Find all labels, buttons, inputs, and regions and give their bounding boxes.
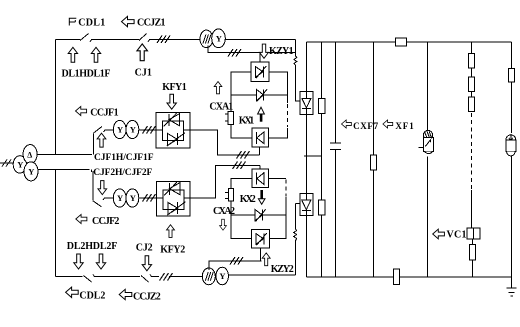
contact DL2 (switch on bottom bus) [84,275,141,283]
wire: stub below KX1c [259,147,261,155]
svg-text:Δ: Δ [27,150,32,159]
CT circles channel 1 [113,120,126,138]
wire: stub below KX2c [259,248,261,261]
arrow up KZY2 [262,253,270,266]
svg-text:Y: Y [117,193,123,203]
svg-text:CDL2: CDL2 [79,290,105,301]
svg-text:DL2HDL2F: DL2HDL2F [67,241,118,252]
diode box VD1 [300,91,313,114]
channel 1 riser with contact [94,127,114,155]
wire: KX1 right rail lower [268,128,287,138]
fuse on top bus [395,38,406,46]
discharge tube FV1 [418,130,433,153]
svg-text:XF1: XF1 [395,121,414,131]
wire: KX2 right rail top [268,178,286,180]
wire: stub into box KX2a [259,165,261,169]
slash marks on bottom bus [160,273,173,281]
svg-text:KFY2: KFY2 [160,244,185,255]
resistor R3 [370,155,376,170]
flex joint KZY1 [294,56,297,65]
svg-text:Y: Y [130,125,136,135]
wire: bottom bus right of transformer [228,274,295,276]
svg-text:Y: Y [130,193,136,203]
wire KZY1 feed from T1 [208,45,296,52]
arrow up DL1H [68,47,77,62]
arrow down CJ2 [142,256,151,271]
resistor R8 [508,69,514,83]
slash marks on KZY2 feed [230,257,243,265]
wire: stub into box KX1a [259,53,261,63]
slash marks on KFY2 output [233,162,246,170]
resistor R6 [468,97,474,111]
resistor R5 [468,77,474,91]
arrow up CXA1 [214,82,222,94]
thyristor KX1b (middle) [231,94,257,96]
arrow down KFY1 [167,94,176,109]
arrow left CDL2 [66,287,79,297]
svg-text:CJ2: CJ2 [136,243,153,254]
resistor CXA1 [228,112,233,125]
resistor R2 [319,200,325,215]
contact CJ2 (switch on bottom bus) [141,275,159,283]
excitation transformer T1 (top) [200,30,213,48]
flex joint KZY2 [294,229,297,241]
slash marks before KFY1 [143,126,156,134]
arrow left CCJZ1 [122,16,135,26]
wire: KX1 right rail upper [269,72,288,103]
svg-text:CJ1: CJ1 [135,68,152,79]
arrow left CCJF2 [76,214,87,223]
thyristor box KX1a [251,62,269,81]
diode box KX1c (bottom) [252,128,268,147]
wire: dashed measuring link [471,113,473,190]
wire: KX1 left rail [231,72,251,112]
wire: KFY2 output right [190,165,260,198]
wire: bottom bus segment 1 [56,276,83,278]
slash marks on KZY1 feed [228,49,241,57]
diode box VD2 [300,193,313,215]
CT circles channel 2 [113,189,126,207]
wire: right rail of left block (top segment with flex joint) [295,40,297,57]
svg-text:Y: Y [117,125,123,135]
fuse on bottom bus [393,269,399,285]
wire: KX1 right rail dashed [286,104,288,127]
svg-text:DL1HDL1F: DL1HDL1F [62,69,111,80]
svg-text:KX2: KX2 [240,194,256,205]
branch 5: discharge tube x=427.6 [427,42,429,131]
branch 7: right edge x=511.5 [511,42,513,69]
svg-text:Y: Y [17,160,23,170]
arrow left CXF7 [342,120,352,128]
arrow left VC1 [433,229,445,239]
svg-text:VC1: VC1 [447,230,467,241]
svg-text:CCJF2: CCJF2 [92,216,119,227]
branch 1: crowbar diodes x=306.4 [305,42,307,92]
excitation transformer T2 (bottom) [202,268,215,285]
wire: KX1 left rail lower [231,125,252,139]
svg-text:Y: Y [28,167,34,177]
wire: field bottom bus [306,276,511,278]
branch 6: sensing chain x=471.5 [471,42,473,54]
svg-text:CJF1H/CJF1F: CJF1H/CJF1F [94,153,154,163]
slash marks before KFY2 [143,194,156,202]
resistor R7 [469,245,475,261]
svg-text:CCJZ2: CCJZ2 [133,292,161,303]
arrester F1 [506,134,516,156]
thyristor box KX2c (bottom) [251,230,269,249]
arrow left CCJF1 [76,106,87,115]
slash marks on generator lead [2,160,11,167]
wire: right rail of left block (bottom segment with flex joint) [295,204,299,229]
thyristor bridge KFY2 [157,182,191,216]
svg-text:Y: Y [216,34,222,44]
svg-text:CXA2: CXA2 [213,206,235,217]
arrow down KX2 [258,190,265,204]
wire: bottom bus to transformer [169,276,203,278]
wire KZY2 feed from T2 [209,261,262,270]
wire: KX2 left rail [231,179,252,189]
thyristor KX2b (middle) [231,214,255,216]
wire: CT to KFY1 [138,129,156,131]
arrow down DL2F [96,254,105,269]
wire: bus CJF2H/CJF2F [38,169,90,171]
arrow up channel1 [97,133,106,147]
arrow down DL2H [74,254,83,269]
branch 4: resistor x=373.5 [373,42,375,155]
svg-text:Y: Y [219,271,225,281]
contact CJ1 (switch on top bus) [139,34,201,43]
wire: top bus segment 1 [56,39,81,41]
resistor CXA2 [228,189,233,201]
slash marks on top bus [157,36,170,44]
wire: KX2 right rail lower [269,197,286,239]
svg-text:CXA1: CXA1 [209,102,233,113]
capacitor C1 [330,143,341,149]
arrow flag CDL1 [69,18,76,25]
wire: KFY1 output right [190,130,260,155]
wire: bus CJF1H/CJF1F [37,153,92,155]
connector box VC1 [467,228,480,239]
arrow up DL1F [91,47,100,62]
arrow up CJ1 [137,44,148,61]
diode box KX2a (top) [252,169,268,187]
branch 2: resistor chain x=321.7 [321,42,323,99]
wire: top bus right of transformer [225,39,296,41]
wire: field top bus [306,41,511,43]
svg-text:CXF7: CXF7 [353,121,379,131]
svg-text:CCJF1: CCJF1 [90,108,118,119]
svg-text:KFY1: KFY1 [162,82,186,93]
arrow up KFY2 [167,225,175,238]
svg-text:KZY1: KZY1 [269,46,294,57]
wire: tie between branch1 and branch2 [304,155,322,157]
svg-text:CCJZ1: CCJZ1 [137,18,166,29]
svg-text:KZY2: KZY2 [271,264,294,275]
svg-text:CJF2H/CJF2F: CJF2H/CJF2F [93,168,152,178]
svg-text:KX1: KX1 [239,116,255,127]
branch 3: capacitor x=335.6 [335,42,337,143]
svg-text:CDL1: CDL1 [78,18,105,29]
resistor R1 [319,99,325,114]
ground [507,288,517,296]
arrow down CXA2 [220,219,227,230]
contact DL1 (switch on top bus) [80,34,139,43]
wire: left vertical (bottom half) [55,170,57,277]
wire: generator lead [0,162,14,164]
arrow up KX1 [258,107,265,122]
arrow down KZY1 [260,44,269,58]
slash marks on KFY1 output [237,151,250,159]
thyristor bridge KFY1 [156,112,190,148]
wire: KX2 left rail lower [231,201,252,239]
wire: left vertical (top half) [55,40,57,155]
resistor R4 [468,54,474,68]
wire: KX2 right rail dashed [285,180,287,197]
wire: CT to KFY2 [138,197,156,199]
channel 2 riser with contact [92,170,114,207]
arrow left CCJZ2 [119,289,132,299]
arrow down channel2 [98,181,107,195]
arrow left XF1 [383,120,393,128]
